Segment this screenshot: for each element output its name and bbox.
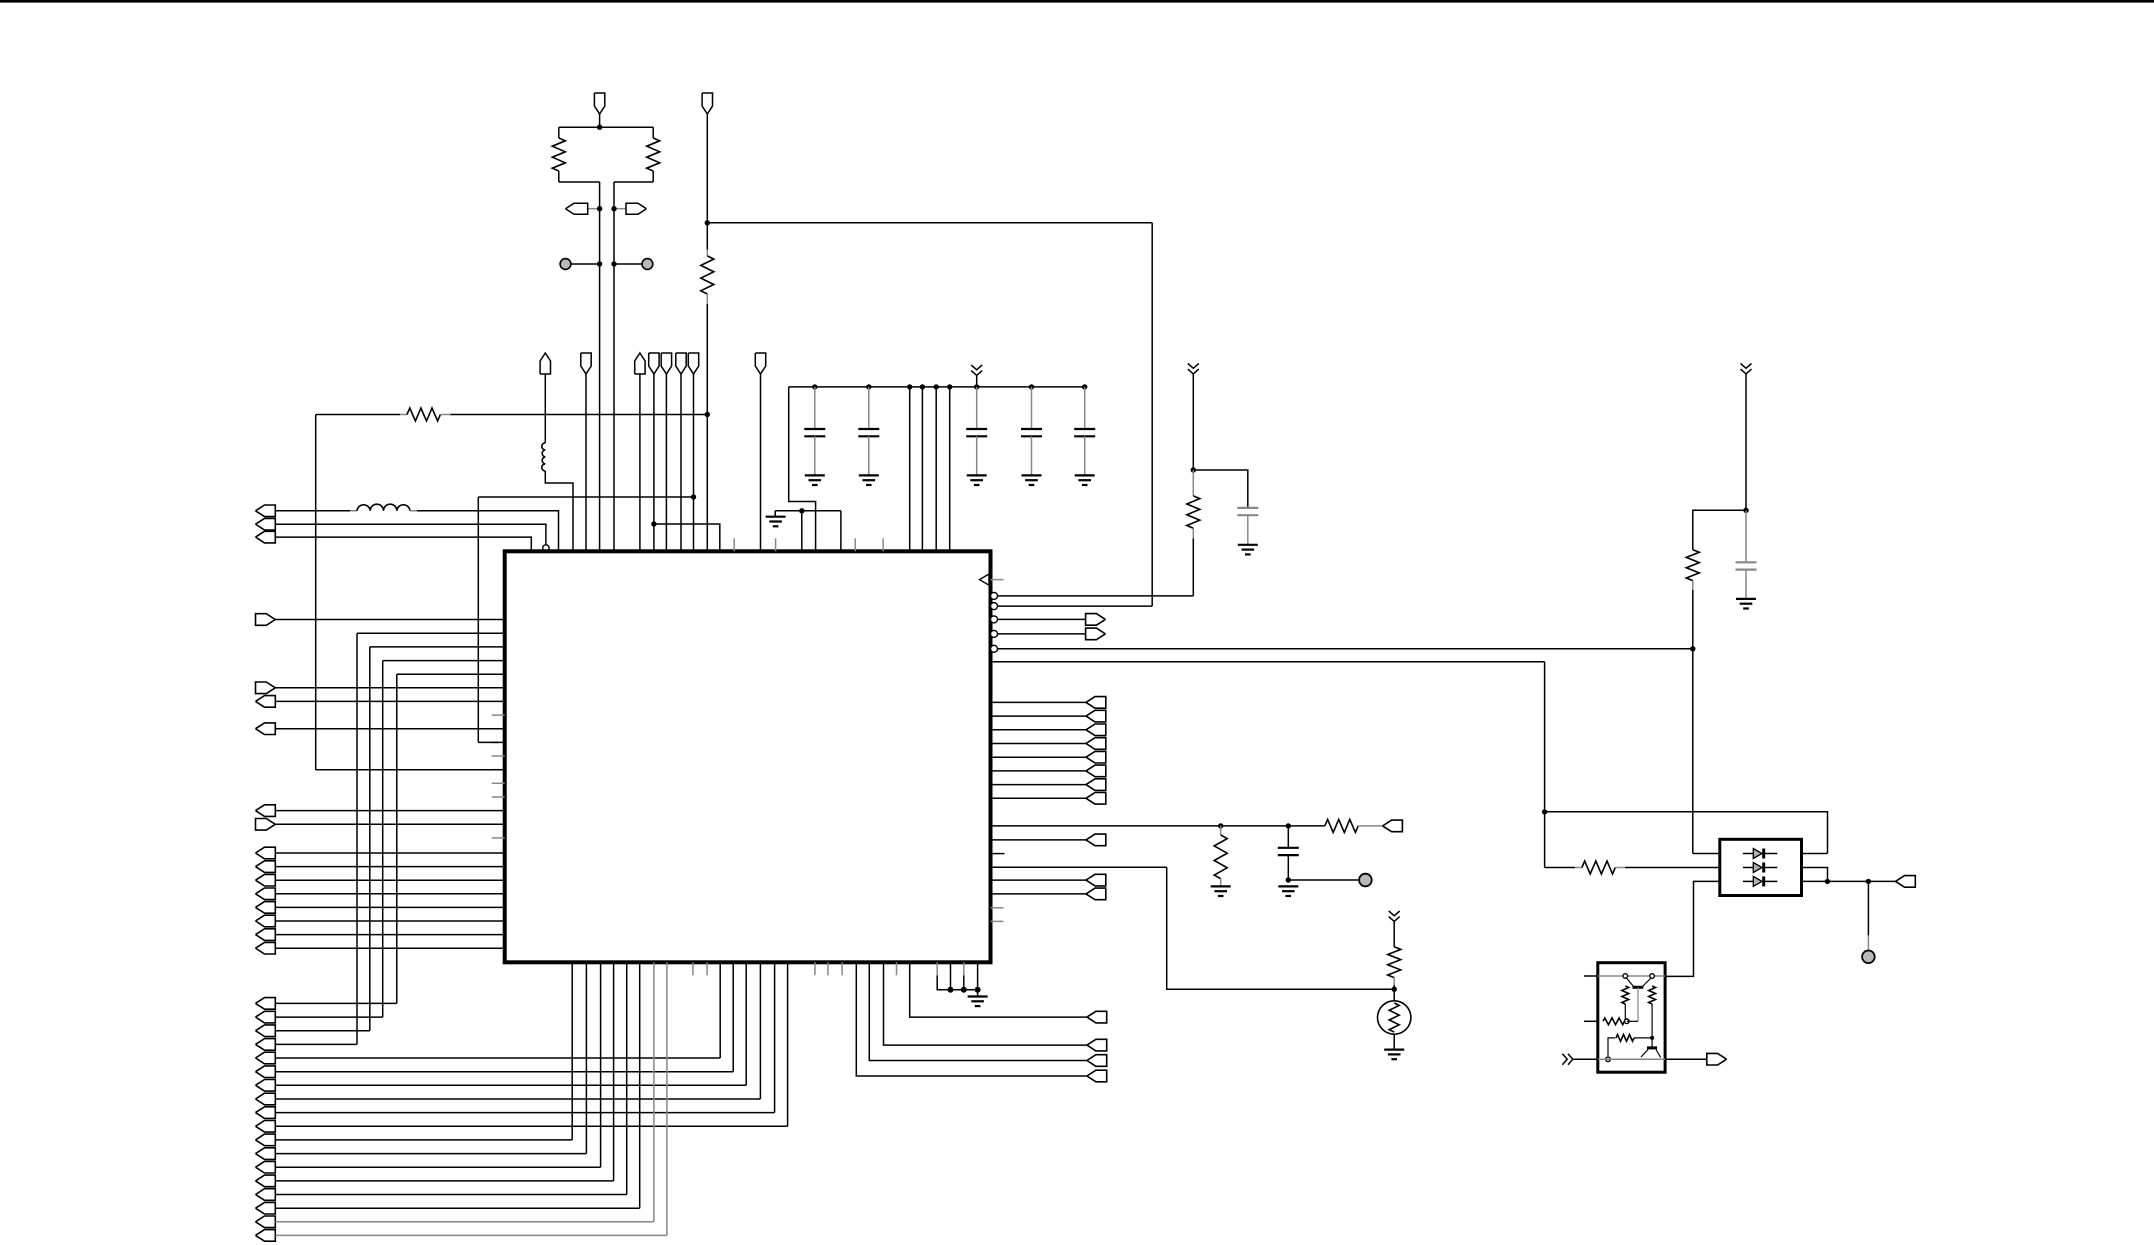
wire	[614, 181, 653, 183]
wire	[275, 619, 504, 621]
wire	[275, 879, 504, 881]
wire	[991, 701, 1087, 703]
ground	[805, 474, 825, 476]
connector B3	[1383, 820, 1403, 832]
wire	[275, 1098, 760, 1100]
wire	[451, 414, 708, 416]
capacitor C3	[976, 387, 978, 429]
connector	[256, 1080, 276, 1092]
pin stub	[854, 538, 856, 551]
connector	[256, 1175, 276, 1187]
wire	[544, 374, 546, 443]
wire	[789, 387, 816, 551]
wire	[706, 415, 708, 552]
resistor R9	[1388, 947, 1401, 978]
pin stub	[733, 538, 735, 551]
wire	[369, 647, 371, 1031]
pin stub	[692, 962, 694, 975]
connector	[256, 1189, 276, 1201]
test point TP3	[1359, 874, 1372, 887]
wire	[935, 387, 937, 551]
ground	[1736, 598, 1756, 600]
wire	[275, 906, 504, 908]
pin bubble	[991, 630, 998, 637]
node	[975, 987, 981, 993]
connector	[256, 1052, 276, 1064]
connector	[256, 614, 276, 626]
resistor R4	[400, 414, 407, 416]
wire	[991, 839, 1087, 841]
node	[907, 384, 912, 389]
wire	[545, 471, 573, 551]
pin stub	[827, 962, 829, 975]
wire	[275, 510, 357, 512]
wire	[706, 223, 708, 250]
arrow tag left	[588, 208, 600, 210]
wire	[1692, 649, 1694, 854]
connector	[256, 861, 276, 873]
wire	[991, 784, 1087, 786]
connector	[1086, 710, 1106, 722]
ground GE1	[774, 511, 776, 517]
wire	[356, 633, 358, 1044]
node	[947, 384, 952, 389]
transistor array U3	[1598, 963, 1665, 1072]
resistor R8	[1325, 819, 1358, 832]
wire	[396, 674, 398, 1003]
wire	[666, 962, 668, 1235]
wire	[991, 825, 1325, 827]
wire	[950, 962, 952, 989]
connector	[256, 929, 276, 941]
node	[948, 987, 954, 993]
wire	[991, 756, 1087, 758]
connector A3	[256, 531, 276, 543]
wire	[478, 741, 498, 743]
node	[597, 261, 602, 266]
node	[1650, 1036, 1654, 1040]
resistor R14	[1616, 1035, 1634, 1042]
ground	[1384, 1048, 1404, 1050]
connector B6	[1086, 888, 1106, 900]
wire	[558, 127, 560, 138]
power flag VU2	[635, 353, 645, 374]
pin stub	[991, 920, 1004, 922]
connector	[256, 1161, 276, 1173]
wire	[370, 646, 505, 648]
wire	[1867, 881, 1869, 935]
connector	[1086, 793, 1106, 805]
capacitor C4	[1031, 387, 1033, 429]
connector	[256, 723, 276, 735]
connector	[256, 1093, 276, 1105]
wire	[991, 797, 1087, 799]
resistor R6	[1686, 550, 1699, 581]
wire	[275, 934, 504, 936]
wire	[1151, 223, 1153, 606]
wire	[732, 962, 734, 1071]
wire	[275, 1112, 774, 1114]
connector B5	[1086, 874, 1106, 886]
resistor R12	[1603, 1018, 1625, 1025]
power chevron VCC1	[971, 365, 982, 375]
wire	[991, 729, 1087, 731]
wire	[275, 947, 504, 949]
wire	[417, 511, 559, 552]
capacitor C6	[1237, 507, 1258, 509]
wire	[275, 524, 546, 544]
connector	[256, 902, 276, 914]
pin stub	[991, 853, 1005, 855]
inductor L2	[350, 510, 357, 512]
wire	[1802, 853, 1828, 855]
power flag VD6	[755, 353, 765, 374]
wire	[1545, 812, 1828, 854]
wire	[1692, 590, 1694, 649]
node J8	[1743, 508, 1748, 513]
connector	[256, 1230, 276, 1242]
wire	[600, 962, 602, 1167]
wire	[998, 618, 1086, 620]
node J5	[691, 494, 696, 499]
wire	[382, 661, 384, 1018]
wire	[991, 879, 1087, 881]
connector	[256, 874, 276, 886]
arrow tag right	[614, 208, 626, 210]
connector B10	[1087, 1039, 1107, 1051]
wire	[949, 387, 951, 551]
wire	[275, 1180, 613, 1182]
node J6	[799, 508, 804, 513]
wire	[976, 375, 978, 387]
pin stub	[492, 796, 505, 798]
wire	[315, 415, 317, 770]
input chevron	[1562, 1054, 1572, 1065]
wire	[275, 1153, 586, 1155]
pin bubble	[991, 616, 998, 623]
wire	[275, 1016, 382, 1018]
wire	[1693, 853, 1720, 855]
node J16	[1866, 879, 1871, 884]
wire	[275, 1234, 667, 1236]
wire	[706, 114, 708, 223]
wire	[1665, 1058, 1706, 1060]
test point TP2	[642, 259, 653, 270]
wire	[759, 962, 761, 1099]
wire	[1693, 510, 1746, 549]
wire	[492, 769, 505, 771]
pin stub	[882, 538, 884, 551]
wire	[1393, 1034, 1395, 1049]
connector	[256, 682, 276, 694]
connector B4	[1086, 834, 1106, 846]
wire	[1393, 921, 1395, 946]
wire	[1802, 880, 1896, 882]
connector B7	[1896, 876, 1916, 888]
ground	[1022, 474, 1042, 476]
connector B2	[1086, 628, 1106, 640]
wire	[1167, 867, 1395, 989]
top border bar	[0, 0, 2154, 3]
power flag VD1	[581, 353, 591, 374]
resistor R11	[1622, 986, 1629, 1004]
wire	[840, 511, 842, 552]
wire	[316, 769, 498, 771]
wire	[275, 823, 504, 825]
connector	[256, 1202, 276, 1214]
wire	[275, 1084, 746, 1086]
wire long	[991, 661, 1545, 663]
wire	[977, 962, 979, 996]
connector A1	[256, 505, 276, 517]
wire	[1745, 374, 1747, 510]
power flag VD2	[649, 353, 659, 374]
wire	[707, 222, 1152, 224]
wire	[478, 496, 693, 498]
node J3	[705, 412, 710, 417]
pin arrow in	[991, 579, 1004, 581]
pin stub	[492, 837, 505, 839]
power flag VD3	[661, 353, 671, 374]
net rail	[1598, 1058, 1665, 1060]
wire	[884, 962, 1087, 1045]
wire	[991, 715, 1087, 717]
wire	[275, 687, 504, 689]
node	[961, 987, 967, 993]
inductor L1	[542, 443, 546, 471]
diode D3	[1743, 880, 1753, 882]
connector A2	[256, 518, 276, 530]
wire	[275, 1221, 654, 1223]
wire	[652, 127, 654, 138]
node J13	[1286, 877, 1291, 882]
pin stub	[492, 714, 505, 716]
wire	[275, 1030, 370, 1032]
wire	[936, 962, 938, 975]
pin stub	[841, 962, 843, 975]
pin bubble	[991, 645, 998, 652]
ground GE2	[968, 995, 988, 997]
wire	[1544, 662, 1546, 812]
pin stub	[492, 755, 505, 757]
pin stub	[706, 962, 708, 975]
wire	[639, 962, 641, 1208]
node J4	[651, 521, 656, 526]
power flag VT2	[702, 93, 712, 114]
wire	[275, 810, 504, 812]
connector	[1086, 765, 1106, 777]
wire	[653, 374, 655, 551]
connector	[256, 819, 276, 831]
wire	[275, 1043, 357, 1045]
wire	[1665, 881, 1720, 976]
connector	[1086, 697, 1106, 709]
wire	[1584, 1020, 1598, 1022]
node J11	[1218, 823, 1223, 828]
wire	[275, 1057, 720, 1059]
node	[597, 206, 602, 211]
power flag VT1	[594, 93, 604, 114]
power chevron VCC4	[1389, 911, 1400, 921]
power flag VD5	[688, 353, 698, 374]
wire	[383, 660, 505, 662]
pin stub	[814, 962, 816, 975]
wire	[991, 770, 1087, 772]
power flag VD4	[676, 353, 686, 374]
capacitor C1	[814, 387, 816, 429]
wire	[571, 962, 573, 1140]
wire	[275, 893, 504, 895]
wire	[1192, 538, 1194, 596]
wire	[275, 866, 504, 868]
test point TP4	[1862, 951, 1875, 964]
wire	[275, 1125, 787, 1127]
ground	[967, 474, 987, 476]
diode array U2	[1720, 839, 1802, 895]
node J14	[1392, 987, 1397, 992]
resistor R3	[706, 250, 708, 256]
pin stub	[492, 782, 505, 784]
connector	[256, 1039, 276, 1051]
pin circle	[1606, 1057, 1611, 1062]
wire	[585, 374, 587, 551]
pin bubble	[991, 592, 998, 599]
wire	[963, 962, 965, 975]
wire	[652, 171, 654, 182]
net rail	[1598, 975, 1665, 977]
wire	[558, 171, 560, 182]
wire	[680, 374, 682, 551]
wire	[921, 387, 923, 551]
capacitor C8	[1287, 826, 1289, 848]
wire	[275, 728, 504, 730]
wire	[275, 920, 504, 922]
wire	[706, 304, 708, 415]
wire	[1574, 1058, 1598, 1060]
pin bubble	[991, 603, 998, 610]
capacitor C2	[868, 387, 870, 429]
wire	[275, 700, 504, 702]
node	[1029, 384, 1034, 389]
wire	[275, 537, 531, 551]
wire	[1627, 1020, 1638, 1022]
connector	[256, 1025, 276, 1037]
resistor R2	[647, 138, 660, 171]
wire	[613, 962, 615, 1181]
connector B11	[1087, 1055, 1107, 1067]
wire	[357, 632, 505, 634]
connector	[256, 942, 276, 954]
wire	[275, 1071, 733, 1073]
ground	[859, 474, 879, 476]
connector	[256, 1148, 276, 1160]
connector B1	[1086, 614, 1106, 626]
pin stub	[775, 538, 777, 551]
pin stub	[991, 907, 1004, 909]
node J7	[1191, 467, 1196, 472]
transistor Q2	[1647, 1046, 1657, 1049]
wire	[991, 743, 1087, 745]
wire	[1608, 1038, 1615, 1056]
connector	[256, 998, 276, 1010]
connector	[256, 1121, 276, 1133]
wire	[559, 181, 600, 183]
wire	[774, 962, 776, 1112]
resistor R1	[552, 138, 565, 171]
pin circle	[543, 545, 549, 551]
pin circle	[1625, 1019, 1630, 1024]
capacitor C5	[1084, 387, 1086, 429]
diode D1	[1743, 853, 1753, 855]
wire	[998, 633, 1086, 635]
thermistor RT1	[1378, 1001, 1411, 1034]
wire	[856, 962, 1087, 1076]
node J10	[1542, 809, 1547, 814]
wire	[1192, 374, 1194, 470]
wire	[910, 962, 1087, 1017]
wire	[909, 387, 911, 551]
node J12	[1286, 823, 1291, 828]
capacitor C7	[1745, 510, 1747, 562]
wire	[801, 511, 803, 552]
resistor R5	[1192, 470, 1194, 496]
node	[974, 384, 979, 389]
connector	[256, 805, 276, 817]
node	[812, 384, 817, 389]
connector B8	[1707, 1053, 1727, 1065]
power chevron VCC2	[1188, 364, 1199, 374]
wire	[275, 852, 504, 854]
connector	[256, 696, 276, 708]
node J1	[597, 125, 602, 130]
wire	[998, 605, 1153, 607]
connector	[256, 1107, 276, 1119]
wire long	[991, 866, 1167, 868]
wire	[585, 962, 587, 1153]
node	[934, 384, 939, 389]
connector	[1086, 779, 1106, 791]
power chevron VCC3	[1741, 364, 1752, 374]
power flag VU1	[540, 353, 550, 374]
connector B12	[1087, 1070, 1107, 1082]
wire	[492, 741, 505, 743]
wire	[1288, 879, 1358, 881]
wire	[275, 1002, 397, 1004]
pin circle	[1650, 974, 1655, 979]
wire	[477, 497, 479, 742]
wire	[275, 1194, 626, 1196]
node J2	[705, 220, 710, 225]
wire	[275, 1139, 572, 1141]
node	[866, 384, 871, 389]
connector	[1086, 751, 1106, 763]
connector	[256, 1216, 276, 1228]
wire	[599, 114, 601, 127]
node	[920, 384, 925, 389]
wire	[787, 962, 789, 1126]
wire	[760, 374, 762, 551]
wire	[275, 1166, 600, 1168]
wire	[653, 962, 655, 1222]
wire	[559, 126, 653, 128]
wire	[1193, 470, 1248, 508]
wire	[1584, 975, 1598, 977]
wire	[998, 648, 1693, 650]
wire	[1802, 868, 1828, 882]
wire	[665, 374, 667, 551]
ground	[1211, 885, 1231, 887]
ground	[1238, 544, 1258, 546]
